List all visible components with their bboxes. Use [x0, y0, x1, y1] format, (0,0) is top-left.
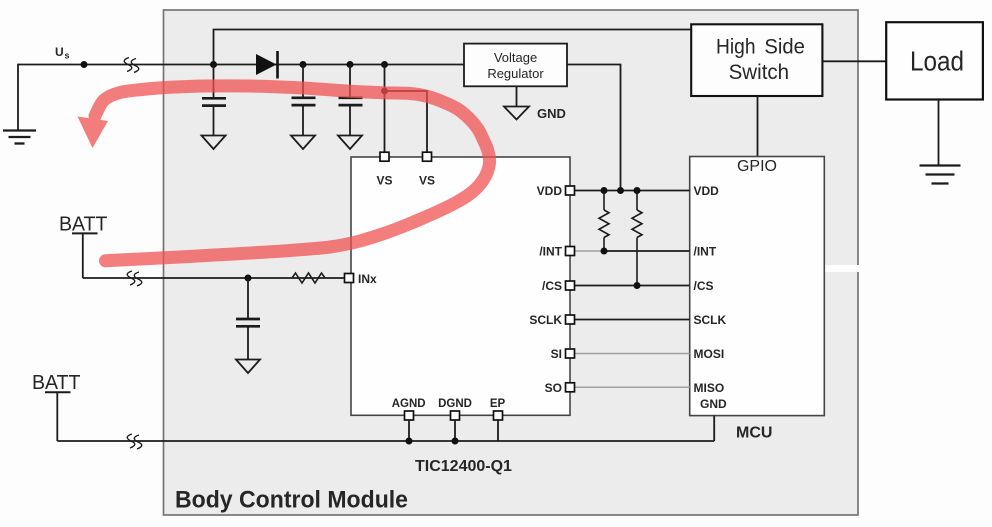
wire VR output to VDD rail — [567, 65, 621, 191]
wire MCU GND down to return — [713, 416, 715, 441]
svg-text:MOSI: MOSI — [694, 347, 725, 361]
svg-text:GND: GND — [700, 397, 727, 411]
svg-text:BATT: BATT — [59, 213, 108, 235]
svg-text:Regulator: Regulator — [487, 66, 544, 81]
BATT 1 terminal — [59, 213, 108, 278]
wire EP to return — [497, 420, 499, 441]
capacitor C2 — [292, 65, 316, 136]
svg-text:/INT: /INT — [539, 245, 562, 259]
Voltage Regulator label — [487, 50, 544, 81]
svg-text:VS: VS — [376, 174, 392, 188]
capacitor C4 filter — [236, 278, 260, 359]
ground (chassis triangle) under C1 — [202, 136, 226, 150]
junction dot DGND — [452, 438, 459, 445]
capacitor C1 — [202, 65, 226, 136]
wire to VS pin 1 — [384, 65, 386, 153]
svg-text:DGND: DGND — [438, 398, 472, 410]
pin AGND square — [405, 411, 414, 420]
capacitor C3 — [339, 65, 363, 136]
svg-text:SI: SI — [551, 347, 562, 361]
net /CS wire — [570, 285, 690, 287]
svg-text:Voltage: Voltage — [494, 50, 537, 65]
svg-text:VDD: VDD — [694, 184, 720, 198]
svg-text:VS: VS — [419, 174, 435, 188]
svg-text:Switch: Switch — [729, 60, 790, 84]
svg-text:Body Control Module: Body Control Module — [175, 487, 408, 514]
ground (chassis triangle) under C2 — [291, 136, 315, 150]
ground (triangle) under Voltage Regulator — [504, 107, 529, 120]
wire HSS to Load — [822, 60, 886, 62]
svg-text:SO: SO — [545, 381, 562, 395]
svg-text:s: s — [65, 51, 70, 61]
wire Us left vertical to ground — [17, 64, 19, 130]
pin VS1 square — [380, 152, 389, 161]
net SCLK wire — [570, 319, 690, 321]
wire BATT1 to INx — [83, 277, 345, 279]
svg-text:Side: Side — [764, 35, 805, 59]
wire-break symbol on INx wire — [127, 271, 142, 286]
svg-text:GPIO: GPIO — [737, 158, 777, 175]
High Side Switch box — [691, 24, 822, 96]
pin INx square — [345, 274, 354, 283]
white strip artifact on right edge — [825, 265, 862, 272]
svg-text:/CS: /CS — [694, 279, 714, 293]
TIC right-side pin squares — [566, 186, 575, 392]
net SO-MISO wire — [570, 386, 690, 388]
svg-text:AGND: AGND — [392, 398, 426, 410]
Body Control Module enclosure box — [164, 10, 859, 515]
BATT 2 terminal — [32, 372, 81, 441]
svg-text:U: U — [55, 45, 64, 59]
MCU box — [690, 157, 825, 416]
Voltage Regulator box — [464, 44, 567, 87]
ground (earth) under Load — [920, 166, 961, 184]
wire-break symbol on return wire — [127, 434, 142, 449]
node dot at Us — [81, 61, 88, 68]
svg-text:SCLK: SCLK — [529, 313, 562, 327]
svg-text:Load: Load — [910, 46, 964, 77]
wire BATT2 ground return — [57, 440, 714, 442]
ground (earth) at Us source — [3, 131, 36, 144]
IC U1 TIC12400-Q1 box — [351, 157, 570, 415]
svg-text:VDD: VDD — [537, 184, 563, 198]
junction dots VDD rail and pull-up nets — [601, 187, 641, 289]
wire Us horizontal main supply — [18, 64, 465, 66]
wire top feed to High Side Switch — [214, 30, 692, 65]
node Us label — [55, 45, 70, 61]
wire VR ground stub — [516, 86, 518, 106]
wire AGND to return — [408, 420, 410, 441]
junction dot AGND — [406, 438, 413, 445]
diode D1 — [256, 51, 278, 79]
MCU pin labels left side — [694, 184, 728, 411]
wire-break symbol on Us wire — [124, 58, 139, 73]
svg-text:INx: INx — [358, 272, 377, 286]
wire HSS to GPIO — [757, 96, 759, 157]
svg-text:High: High — [716, 35, 756, 59]
pin labels AGND DGND EP — [392, 398, 506, 410]
svg-text:/INT: /INT — [694, 245, 717, 259]
pin EP square — [494, 411, 503, 420]
svg-text:MCU: MCU — [736, 425, 772, 442]
svg-text:TIC12400-Q1: TIC12400-Q1 — [415, 458, 512, 475]
net /INT wire black segment — [604, 250, 690, 252]
wire Load to ground — [938, 100, 940, 166]
svg-text:EP: EP — [490, 398, 506, 410]
resistor R2 pull-up — [632, 191, 642, 286]
svg-text:SCLK: SCLK — [694, 313, 727, 327]
pin VS2 square — [423, 152, 432, 161]
ground (chassis triangle) under C3 — [338, 136, 362, 150]
resistor R3 series INx — [292, 273, 325, 283]
red annotation swoosh — [78, 86, 490, 261]
ground (chassis triangle) under C4 — [236, 360, 260, 374]
junction dot VS branch — [381, 88, 388, 95]
svg-text:GND: GND — [537, 106, 566, 121]
svg-text:/CS: /CS — [542, 279, 562, 293]
svg-text:BATT: BATT — [32, 372, 81, 394]
High Side Switch label — [716, 35, 805, 85]
svg-text:MISO: MISO — [694, 381, 725, 395]
net VDD wire — [570, 190, 690, 192]
junction dot INx filter — [245, 275, 252, 282]
wire DGND to return — [454, 420, 456, 441]
TIC pin labels right side — [529, 184, 562, 395]
junction dots on supply rail — [210, 61, 388, 68]
net /INT wire gray segment — [570, 250, 604, 252]
Load box — [886, 22, 983, 99]
resistor R1 pull-up — [599, 191, 609, 252]
pin DGND square — [451, 411, 460, 420]
wire branch to VS pin 2 — [385, 91, 428, 152]
net SI-MOSI wire — [570, 353, 690, 355]
